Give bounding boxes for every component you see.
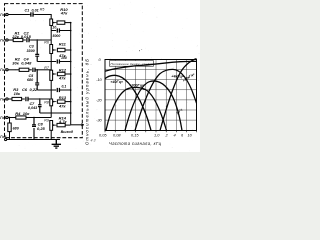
label Vyhod	[61, 130, 74, 134]
svg-text:10к: 10к	[23, 111, 30, 116]
label C10	[61, 56, 67, 60]
x tick label 1,0	[154, 132, 160, 137]
label R8	[44, 101, 49, 105]
svg-text:Гн2: Гн2	[0, 38, 6, 42]
input terminal Gn1	[6, 13, 8, 15]
pot wiper arrow stage4	[53, 101, 56, 102]
junction dot row3 cap	[37, 69, 38, 70]
label R7	[44, 66, 50, 70]
svg-text:С1: С1	[25, 9, 30, 13]
junction dot C9 bus	[70, 30, 72, 32]
label 4kHz	[172, 75, 184, 79]
svg-text:«40Гц»: «40Гц»	[111, 80, 124, 84]
svg-text:0,08: 0,08	[113, 132, 121, 137]
svg-text:R5: R5	[40, 8, 45, 12]
svg-text:Относительный уровень, дБ: Относительный уровень, дБ	[85, 59, 90, 145]
label C9	[52, 25, 60, 38]
ground	[52, 140, 61, 149]
y axis title rotated	[85, 59, 90, 145]
label Gn5	[0, 116, 6, 120]
label 1kHz small	[175, 107, 183, 115]
svg-text:4,7к: 4,7к	[58, 119, 68, 124]
chart grid horizontals	[105, 70, 197, 121]
input terminal Gn4	[6, 98, 8, 100]
svg-text:22к: 22к	[11, 34, 19, 39]
page mark 43	[91, 139, 96, 143]
annotation text	[111, 62, 153, 66]
band curve 40Hz	[105, 75, 151, 130]
svg-text:5000: 5000	[53, 34, 61, 38]
svg-text:-20: -20	[96, 97, 103, 102]
junction dot stage4	[70, 101, 72, 103]
wire row4 to pot chain	[29, 98, 51, 100]
pot wiper arrow stage3	[53, 73, 56, 74]
svg-text:Гн4: Гн4	[0, 97, 6, 101]
wire row2 left	[8, 39, 13, 41]
resistor R2	[19, 68, 29, 71]
x tick label 0,05	[99, 132, 107, 137]
x tick label 0,08	[113, 132, 121, 137]
pot wiper arrow stage2	[53, 49, 56, 50]
label R4 10k	[15, 111, 30, 116]
input terminal Gn2	[6, 39, 8, 41]
capacitor C5 (shunt below row3)	[35, 70, 39, 90]
potentiometer R8 (stage4)	[50, 99, 53, 106]
svg-text:680: 680	[13, 126, 20, 130]
svg-text:R11: R11	[59, 41, 67, 46]
pot wiper arrow stage5	[53, 124, 56, 125]
wire R2 to C4	[29, 69, 32, 71]
band curve 4kHz	[135, 69, 197, 130]
label R6	[44, 41, 49, 45]
wire pot2 bottom to row3	[50, 54, 52, 71]
label Gn4	[0, 97, 6, 101]
svg-text:«300Гц»: «300Гц»	[130, 83, 145, 87]
svg-text:Гн3: Гн3	[0, 68, 6, 72]
resistor R15 (vertical, bottom left)	[8, 123, 11, 132]
wire pot3 bottom to row4	[50, 80, 52, 99]
capacitor C10 (stage2 series to bus)	[37, 61, 56, 63]
terminal ground rail left	[5, 138, 7, 140]
svg-text:0,043: 0,043	[28, 106, 38, 110]
wire R10 to bus	[65, 22, 71, 24]
svg-text:0,25: 0,25	[37, 126, 46, 131]
capacitor C1	[30, 12, 34, 17]
wire row1	[8, 14, 30, 16]
x tick label 2	[165, 132, 169, 137]
label Gn2	[0, 38, 6, 42]
capacitor C11 (stage3 series to bus)	[37, 89, 56, 91]
label Gn6	[0, 135, 6, 139]
label R2 C4 30k 0,048	[12, 57, 32, 66]
output wire with arrow	[71, 124, 84, 126]
junction dot row4 cap	[39, 98, 40, 99]
label R3 C6 0,22	[13, 87, 38, 96]
chart plot border	[105, 60, 197, 131]
band curve 10kHz	[160, 59, 197, 131]
resistor R14	[57, 123, 65, 126]
wire R13 to bus	[65, 101, 71, 103]
y tick label 0	[99, 57, 102, 62]
wire pot4 bottom to row5	[50, 106, 52, 118]
svg-text:R9: R9	[44, 118, 49, 122]
input terminal Gn3	[6, 69, 8, 71]
potentiometer R7 (stage3)	[50, 70, 53, 80]
x tick label 10	[188, 132, 193, 137]
wire row5 to pot chain	[26, 117, 51, 119]
wire R12 to bus	[65, 73, 71, 75]
svg-text:Частота сигнала, кГц: Частота сигнала, кГц	[109, 141, 162, 146]
x axis tick marks	[105, 131, 197, 133]
wire row5 left	[8, 117, 16, 119]
label 47k below	[58, 53, 66, 58]
svg-text:Гн6: Гн6	[0, 135, 6, 139]
wire R3 to C6	[22, 98, 25, 100]
speck above chart	[139, 49, 142, 51]
svg-text:-30: -30	[96, 118, 103, 123]
label C8 0,25	[37, 121, 46, 130]
label R14 4,7k	[58, 116, 68, 124]
capacitor C6	[26, 97, 29, 101]
svg-text:47к: 47к	[58, 103, 66, 108]
wire row4 left	[8, 98, 12, 100]
band curve 1kHz	[125, 81, 182, 131]
wire R11 to bus	[65, 49, 71, 51]
wire C7 to bus	[40, 112, 71, 114]
svg-text:С6: С6	[22, 87, 28, 92]
svg-text:R12: R12	[59, 67, 67, 72]
svg-text:0,22: 0,22	[30, 87, 39, 92]
label R10 47k	[60, 7, 69, 16]
capacitor C8 (bottom shunt)	[32, 118, 36, 140]
wire R14 to bus	[65, 124, 71, 126]
label R9	[44, 118, 49, 122]
y tick label -30	[96, 118, 103, 123]
svg-text:4 3: 4 3	[91, 139, 96, 143]
wire pot5 to ground rail	[50, 130, 52, 139]
capacitor C7 (shunt below row4)	[38, 100, 42, 113]
x tick label 0,15	[131, 132, 139, 137]
capacitor C4	[33, 68, 36, 72]
output arrowhead	[81, 124, 84, 126]
resistor R4	[16, 116, 26, 119]
potentiometer R9 (stage5)	[50, 121, 53, 131]
label C3 3300	[27, 45, 36, 53]
svg-text:0,018: 0,018	[21, 34, 32, 39]
label R11 above	[59, 41, 67, 46]
junction dot stage2	[70, 49, 72, 51]
svg-text:47к: 47к	[60, 11, 68, 16]
wire R1 to C2	[23, 39, 26, 41]
ground rail wire	[7, 139, 60, 141]
junction dot stage3	[70, 73, 72, 75]
svg-text:1,0: 1,0	[154, 132, 160, 137]
svg-text:30к: 30к	[12, 61, 19, 66]
x tick label 6	[181, 132, 184, 137]
svg-text:100: 100	[61, 56, 67, 60]
label C11	[62, 85, 67, 89]
junction dot C11 bus	[70, 89, 72, 91]
wire pot1 bottom to row2	[50, 26, 52, 45]
label C7 0,043	[28, 102, 38, 110]
resistor R12	[57, 72, 65, 75]
svg-text:0,048: 0,048	[21, 61, 32, 66]
wire row3 left	[8, 69, 19, 71]
label Gn1	[0, 13, 6, 17]
label R5	[40, 8, 45, 12]
y tick label -20	[96, 97, 103, 102]
wire row2 to pot chain	[30, 39, 51, 41]
resistor R3	[12, 97, 22, 100]
band curve 300Hz	[106, 87, 167, 130]
label R1 C2 22k 0,018	[11, 30, 31, 39]
svg-text:Выход: Выход	[61, 130, 74, 134]
label 680	[13, 126, 20, 130]
label C1 0,01	[25, 9, 39, 13]
svg-text:0,1: 0,1	[62, 85, 67, 89]
svg-text:0,15: 0,15	[131, 132, 139, 137]
label 10kHz	[182, 72, 196, 83]
x axis title	[109, 141, 162, 146]
x tick label 4	[174, 132, 177, 137]
paper noise	[1, 2, 200, 152]
label 300Hz	[130, 83, 145, 87]
bus wire (right vertical)	[70, 23, 72, 125]
potentiometer R6 (stage2)	[50, 45, 53, 54]
junction dot row2 cap	[37, 39, 38, 40]
y tick label -10	[96, 77, 103, 82]
potentiometer R5 (stage1)	[50, 19, 53, 26]
svg-text:-10: -10	[96, 77, 103, 82]
svg-text:47к: 47к	[58, 76, 66, 81]
svg-text:R13: R13	[59, 95, 67, 100]
svg-text:0,01: 0,01	[32, 9, 39, 13]
capacitor C9 (stage1 series to bus)	[51, 30, 56, 32]
label 40Hz	[111, 80, 124, 84]
capacitor C3 (shunt below row2)	[35, 41, 39, 62]
wire row1 to pot chain	[34, 15, 51, 20]
junction dot row5 left	[9, 117, 10, 118]
svg-text:Гн1: Гн1	[0, 13, 6, 17]
input terminal Gn5	[6, 116, 8, 118]
label R13 above	[59, 95, 67, 100]
label 47k below	[58, 103, 66, 108]
label R12 above	[59, 67, 67, 72]
junction dot row5 c8	[33, 117, 34, 118]
chart grid verticals	[115, 60, 186, 131]
svg-text:Гн5: Гн5	[0, 116, 6, 120]
annotation box (position of sliders)	[110, 61, 154, 67]
junction dot C10 bus	[70, 61, 72, 63]
svg-text:680: 680	[27, 78, 34, 82]
dashed enclosure border	[5, 4, 83, 138]
capacitor C2	[27, 38, 30, 42]
label Gn3	[0, 68, 6, 72]
svg-text:R8: R8	[44, 101, 49, 105]
svg-text:3300: 3300	[27, 49, 36, 53]
resistor R1	[13, 38, 23, 41]
junction dot stage1	[70, 22, 72, 24]
resistor R10 (stage1 wiper to bus)	[57, 21, 65, 24]
label C5 680	[27, 74, 34, 82]
junction dot C7 bus	[70, 112, 72, 114]
resistor R11	[57, 48, 65, 51]
wire R15 top/bottom	[9, 118, 11, 140]
svg-text:10к: 10к	[14, 91, 21, 96]
resistor R13	[57, 100, 65, 103]
svg-text:R4: R4	[15, 111, 21, 116]
svg-text:R6: R6	[44, 41, 49, 45]
wire row3 to pot chain	[36, 69, 51, 71]
pot wiper arrow stage1	[53, 22, 56, 23]
flat response curve	[105, 61, 197, 71]
label 47k below	[58, 76, 66, 81]
svg-text:0,05: 0,05	[99, 132, 107, 137]
